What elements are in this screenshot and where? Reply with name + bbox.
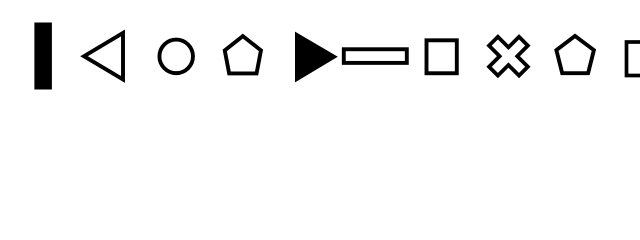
wide rectangle outline <box>344 49 407 63</box>
X cross outline <box>478 26 538 86</box>
filled right-pointing triangle <box>295 32 338 83</box>
pentagon 2 outline <box>556 36 594 73</box>
square outline <box>427 40 457 73</box>
left-pointing triangle outline <box>84 33 123 79</box>
pentagon 1 outline <box>225 36 261 73</box>
circle outline <box>159 40 193 74</box>
filled vertical bar <box>34 23 52 90</box>
cut-off square outline at right edge <box>627 42 640 76</box>
